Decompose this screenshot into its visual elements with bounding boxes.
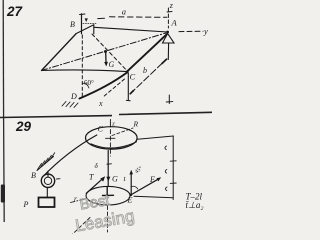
- svg-text:60°: 60°: [84, 79, 94, 87]
- svg-text:R: R: [133, 120, 139, 129]
- svg-text:B: B: [31, 171, 36, 180]
- svg-text:C: C: [98, 124, 104, 133]
- svg-text:A: A: [171, 18, 178, 28]
- svg-text:x: x: [98, 99, 103, 108]
- svg-text:T: T: [89, 173, 94, 182]
- svg-text:y: y: [203, 26, 208, 36]
- svg-text:r: r: [74, 194, 77, 203]
- svg-text:G: G: [109, 60, 115, 69]
- svg-text:27: 27: [6, 4, 24, 19]
- svg-text:29: 29: [15, 119, 32, 134]
- svg-text:G: G: [112, 175, 118, 184]
- svg-text:E: E: [127, 196, 133, 205]
- svg-text:a: a: [122, 6, 126, 16]
- svg-text:C: C: [130, 72, 136, 82]
- svg-text:b: b: [143, 66, 147, 75]
- svg-text:F: F: [149, 175, 155, 184]
- svg-text:P: P: [23, 200, 29, 209]
- svg-text:t̄⊥a₂: t̄⊥a₂: [186, 200, 204, 210]
- svg-text:D: D: [70, 92, 77, 101]
- svg-text:z: z: [111, 121, 115, 128]
- svg-text:B: B: [70, 20, 75, 29]
